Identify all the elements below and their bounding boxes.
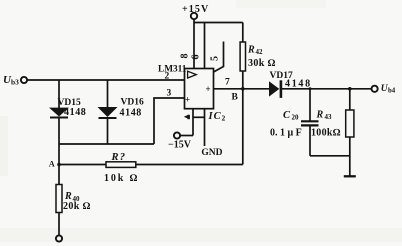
terminal Ub3 <box>21 77 27 83</box>
wire C20 bottom lead <box>309 126 311 155</box>
wire Ub3 to pin 2 <box>27 79 184 81</box>
svg-text:+: + <box>206 84 211 94</box>
svg-text:20: 20 <box>292 113 300 121</box>
resistor R? body <box>106 162 136 168</box>
IC2 pin 4 lead <box>192 109 194 136</box>
svg-text:2: 2 <box>222 114 226 123</box>
svg-text:R: R <box>247 45 255 56</box>
op-amp gain triangle <box>188 71 197 78</box>
wire to -15V terminal <box>180 135 193 137</box>
wire R42 top lead <box>242 23 244 43</box>
wire R43 top lead <box>349 89 351 110</box>
svg-text:100kΩ: 100kΩ <box>311 128 341 139</box>
pin 4 strobe arrow <box>184 115 189 119</box>
svg-text:VD16: VD16 <box>121 98 144 108</box>
svg-text:20k Ω: 20k Ω <box>63 201 91 212</box>
wire R? to feedback corner <box>136 164 243 166</box>
diode VD17 <box>269 81 279 96</box>
svg-text:5: 5 <box>210 56 221 61</box>
junction dot output/R42 <box>241 87 245 91</box>
svg-text:GND: GND <box>201 148 222 158</box>
diode VD15 <box>49 108 69 117</box>
svg-text:0. 1 μ F: 0. 1 μ F <box>270 128 302 139</box>
svg-text:2: 2 <box>165 72 170 82</box>
wire node A line <box>59 164 106 166</box>
wire cathode bus <box>59 143 154 145</box>
wire VD17 to Ub4 <box>282 88 372 90</box>
wire +15V bus to R42 <box>194 22 243 24</box>
svg-text:+: + <box>185 95 190 105</box>
terminal bottom <box>56 235 62 241</box>
svg-text:+15V: +15V <box>182 4 209 15</box>
svg-text:4148: 4148 <box>120 108 142 119</box>
junction dot C20 branch <box>309 87 312 90</box>
svg-text:10k Ω: 10k Ω <box>104 173 139 184</box>
wire pin 6 <box>204 23 206 69</box>
wire VD16 cathode down <box>107 117 109 144</box>
svg-text:43: 43 <box>325 113 333 121</box>
svg-text:R?: R? <box>111 152 127 163</box>
resistor R40 body <box>56 185 62 213</box>
svg-text:b4: b4 <box>388 87 396 94</box>
terminal -15V <box>174 132 180 138</box>
ground bar <box>344 175 356 177</box>
wire +15V down to pin 8 <box>193 19 195 68</box>
svg-text:4148: 4148 <box>64 107 86 118</box>
pin connector bar <box>193 116 205 118</box>
resistor R42 body <box>240 42 245 71</box>
wire bus up to pin 3 <box>154 98 185 144</box>
wire VD15 branch top <box>58 80 60 108</box>
svg-text:C: C <box>283 110 291 121</box>
wire C20 top lead <box>309 89 311 121</box>
wire VD16 branch top <box>107 80 109 108</box>
svg-text:b3: b3 <box>11 78 19 87</box>
svg-text:8: 8 <box>180 54 191 59</box>
resistor R43 body <box>346 110 354 137</box>
svg-text:7: 7 <box>225 78 230 88</box>
wire R43 bottom to ground <box>349 137 351 176</box>
wire output pin 7 <box>214 88 270 90</box>
svg-text:4148: 4148 <box>285 79 312 90</box>
IC2 pin 1 GND lead <box>204 109 206 146</box>
svg-text:A: A <box>49 159 55 168</box>
wire R42 bottom lead <box>242 71 244 89</box>
svg-text:3: 3 <box>167 89 172 99</box>
wire VD15 cathode down to R40 <box>58 117 60 185</box>
wire pin 5 <box>214 42 224 73</box>
svg-text:B: B <box>232 93 239 103</box>
svg-text:LM311: LM311 <box>158 64 187 74</box>
svg-text:IC: IC <box>208 111 222 122</box>
diode VD16 <box>98 107 118 117</box>
svg-text:R: R <box>316 110 324 121</box>
junction dot R43 branch <box>348 87 352 91</box>
wire R40 bottom lead <box>58 213 60 236</box>
terminal Ub4 <box>372 86 378 92</box>
svg-text:−15V: −15V <box>168 140 192 151</box>
capacitor C20 plates <box>301 120 319 122</box>
wire feedback up to output <box>242 89 244 165</box>
svg-text:42: 42 <box>256 48 264 56</box>
terminal +15V <box>191 13 197 19</box>
svg-text:6: 6 <box>191 55 202 60</box>
op-amp IC2 box <box>185 69 214 109</box>
junction dot node A <box>57 163 61 167</box>
svg-text:30k Ω: 30k Ω <box>248 58 276 69</box>
wire bottom bus to ground <box>310 155 350 157</box>
